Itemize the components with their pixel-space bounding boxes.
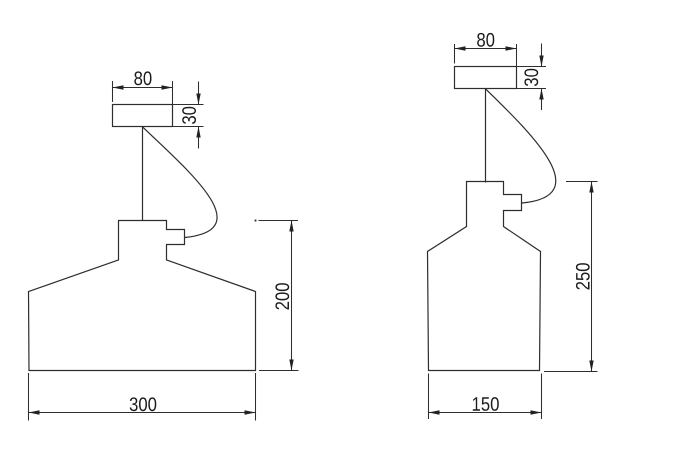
dim 150: dimension line [429, 412, 542, 414]
label 150 [473, 397, 499, 411]
label 30 left [182, 107, 196, 124]
left cord curve [143, 127, 218, 238]
arrow dim 30 left, top (outside) [196, 94, 200, 105]
arrow dim 30 left, bottom (outside) [196, 127, 200, 138]
dim 80 right: extension lines [454, 44, 456, 64]
arrow dim 80 left, right end [162, 85, 173, 89]
dot on 200 top extension [255, 220, 257, 222]
left shade outline [29, 221, 256, 371]
dim 300: extension lines [28, 373, 30, 421]
right cord curve [486, 89, 556, 203]
arrow dim 300, right [245, 410, 256, 414]
left canopy [113, 105, 173, 127]
right cord straight [485, 89, 487, 183]
arrow dim 150, left [429, 410, 440, 414]
label 300 [130, 397, 157, 411]
dim 30 right: dimension line segments [541, 44, 543, 67]
dim 250: dimension line [591, 182, 593, 372]
right canopy [455, 67, 517, 89]
arrow dim 80 right, right end [506, 46, 517, 50]
arrow dim 250, bottom [589, 361, 593, 372]
label 200 [275, 283, 289, 309]
arrow dim 150, right [531, 410, 542, 414]
arrow dim 80 left, left end [113, 85, 124, 89]
arrow dim 250, top [589, 182, 593, 193]
dim 200: extension lines [259, 220, 299, 222]
dim 80 right: dimension line [455, 48, 517, 50]
label 250 [576, 263, 590, 289]
dim 80 left: dimension line [113, 87, 173, 89]
arrow dim 200, top [289, 221, 293, 232]
dim 250: extension lines [566, 181, 598, 183]
arrow dim 200, bottom [289, 360, 293, 371]
dim 300: dimension line [29, 412, 256, 414]
arrow dim 300, left [29, 410, 40, 414]
arrow dim 30 right, bottom (outside) [539, 89, 543, 100]
dim 150: extension lines [428, 374, 430, 420]
arrow dim 80 right, left end [455, 46, 466, 50]
dim 80 left: extension lines [112, 81, 114, 102]
dim 200: dimension line [291, 221, 293, 371]
label 30 right [524, 69, 538, 86]
dim 30 left: extension lines [173, 104, 204, 106]
label 80 right [477, 33, 494, 47]
dim 30 right: extension lines [517, 66, 547, 68]
arrow dim 30 right, top (outside) [539, 56, 543, 67]
left cord straight [142, 127, 144, 221]
right shade outline [428, 182, 541, 371]
dim 30 left: dimension line segments [198, 82, 200, 105]
label 80 left [134, 71, 151, 85]
